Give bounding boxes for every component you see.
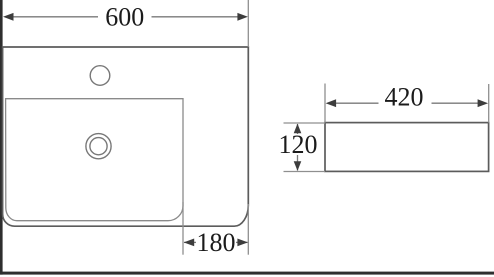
dimension line 120 vertical [297, 124, 299, 171]
arrowhead 120 bottom [294, 161, 302, 171]
arrowhead 180 right [237, 239, 248, 247]
dimension line 180 right segment [236, 241, 248, 243]
arrowhead 120 top [294, 124, 302, 134]
dimension line 600 right segment [152, 16, 240, 18]
arrowhead 180 left [184, 239, 195, 247]
extension line bottom of 120 dimension [284, 171, 326, 173]
dimension line 180 left segment [184, 241, 196, 243]
svg-text:180: 180 [197, 228, 236, 257]
label 120 background mask [278, 134, 318, 155]
extension line left of 420 dimension [324, 84, 326, 123]
extension line left of 180 dimension [182, 202, 184, 255]
frame bottom border [0, 272, 494, 275]
extension line right of 600 dimension [247, 0, 249, 47]
arrowhead 600 right [237, 13, 248, 21]
arrowhead 420 left [326, 99, 337, 107]
dimension line 420 left segment [334, 102, 379, 104]
sink outer outline (top view) [3, 47, 249, 226]
pedestal rectangle (side view) [325, 123, 489, 172]
svg-text:120: 120 [279, 130, 318, 159]
svg-text:600: 600 [105, 3, 144, 32]
dimension line 420 right segment [432, 102, 480, 104]
svg-text:420: 420 [385, 83, 424, 112]
arrowhead 420 right [478, 99, 489, 107]
extension line right of 420 dimension [488, 84, 490, 123]
extension line top of 120 dimension [284, 122, 326, 124]
extension line right of 180 dimension [247, 204, 249, 255]
drain inner circle [90, 138, 107, 155]
basin inner rectangle (top view) [6, 99, 183, 221]
frame left border [0, 0, 3, 275]
arrowhead 600 left [3, 13, 14, 21]
drain outer circle [86, 134, 111, 159]
dimension line 600 left segment [12, 16, 98, 18]
faucet hole circle [90, 66, 110, 86]
